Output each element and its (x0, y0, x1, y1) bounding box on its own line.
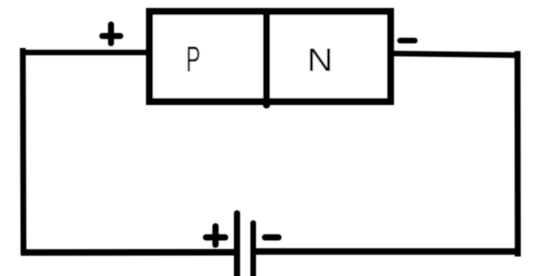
junction divider line (263, 12, 270, 106)
svg-text:P: P (186, 39, 201, 80)
battery negative plate (short) (250, 223, 256, 276)
wire: top right horizontal (392, 54, 519, 56)
plus sign at battery (206, 226, 225, 245)
wire: right vertical (515, 51, 521, 257)
wire: top left horizontal (20, 50, 147, 56)
wire: left vertical (20, 48, 27, 255)
minus sign at battery (265, 234, 279, 240)
diode body outline (P-N box) (150, 12, 391, 102)
wire: bottom right horizontal (from battery - plate) (253, 248, 519, 255)
minus sign at cathode wire (400, 38, 415, 44)
battery positive plate (long) (234, 213, 240, 276)
svg-text:N: N (307, 42, 333, 78)
plus sign at anode wire (102, 25, 120, 44)
wire: bottom left horizontal (to battery + plate) (21, 249, 237, 256)
